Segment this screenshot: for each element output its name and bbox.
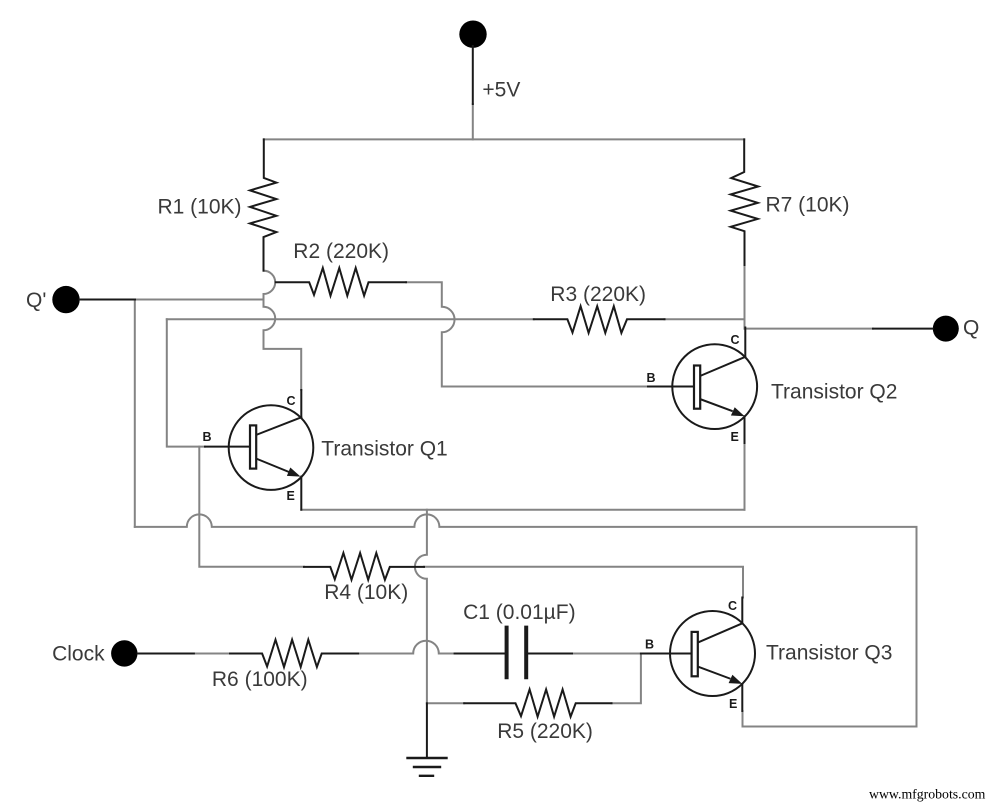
wire R1 bottom hops to Q1 collector: [264, 271, 302, 390]
capacitor C1: [455, 653, 572, 655]
transistor Q2: [648, 328, 757, 444]
wire Q' to R1 node: [135, 299, 264, 301]
wire R4 left branch: [199, 447, 304, 567]
resistor R6: [230, 640, 358, 667]
wire ground vertical with hop: [415, 510, 427, 704]
svg-text:E: E: [287, 489, 295, 503]
wire long bottom run with hops: [135, 514, 917, 726]
wire Q3 emitter gray to loop: [742, 711, 744, 727]
svg-text:Transistor Q2: Transistor Q2: [771, 381, 897, 404]
resistor R5: [464, 689, 611, 716]
wire R4 right to Q3 collector: [424, 567, 743, 598]
wire Q' lead: [80, 299, 136, 301]
svg-text:R4 (10K): R4 (10K): [324, 581, 408, 604]
wire top supply rail: [264, 138, 744, 140]
svg-text:Q': Q': [26, 289, 46, 312]
svg-text:R5 (220K): R5 (220K): [497, 720, 593, 743]
resistor R2: [276, 268, 406, 296]
svg-text:R6 (100K): R6 (100K): [212, 668, 308, 691]
wire clock gray segment 2 with hop: [358, 641, 455, 654]
wire Q1 base net corner down: [167, 319, 205, 446]
svg-text:Q: Q: [963, 316, 979, 339]
svg-text:R2 (220K): R2 (220K): [293, 240, 389, 263]
wire Q' branch down left: [134, 300, 136, 527]
svg-text:B: B: [645, 638, 654, 652]
svg-text:E: E: [731, 430, 739, 444]
svg-text:B: B: [647, 371, 656, 385]
wire emitter bus Q1-Q2: [301, 509, 744, 511]
node Clock terminal: [111, 640, 137, 666]
wire R2 right to Q2 base: [406, 282, 648, 386]
resistor R7: [731, 139, 759, 265]
svg-text:C1 (0.01µF): C1 (0.01µF): [463, 601, 575, 624]
svg-text:+5V: +5V: [482, 78, 520, 101]
svg-text:R1 (10K): R1 (10K): [158, 195, 242, 218]
svg-text:B: B: [203, 430, 212, 444]
svg-text:R7 (10K): R7 (10K): [766, 194, 850, 217]
wire Clock lead: [138, 653, 194, 655]
wire Q1 base net horizontal: [167, 318, 534, 320]
wire Q output gray: [745, 328, 874, 330]
transistor Q3: [641, 598, 755, 712]
svg-text:C: C: [731, 333, 740, 347]
svg-text:www.mfgrobots.com: www.mfgrobots.com: [869, 787, 986, 802]
svg-text:Clock: Clock: [52, 642, 105, 665]
svg-text:R3 (220K): R3 (220K): [550, 283, 646, 306]
wire clock gray segment 1: [194, 653, 230, 655]
wire +5V stub lower (gray): [472, 104, 474, 139]
svg-text:E: E: [729, 697, 737, 711]
svg-text:C: C: [728, 599, 737, 613]
node +5V terminal: [459, 21, 486, 48]
wire Q2 emitter lower gray: [744, 443, 746, 510]
wire C1 right gray: [572, 653, 641, 655]
wire R7 bottom node: [744, 265, 746, 329]
resistor R3: [534, 306, 665, 333]
resistor R1: [250, 139, 276, 270]
ground: [426, 703, 428, 757]
node Q terminal: [933, 316, 959, 342]
resistor R4: [304, 553, 424, 580]
wire R3 right to R7 node: [665, 318, 745, 320]
svg-text:Transistor Q3: Transistor Q3: [766, 641, 892, 664]
svg-text:Transistor Q1: Transistor Q1: [321, 438, 447, 461]
node Q' terminal: [52, 286, 79, 313]
wire R5 left gray: [427, 702, 464, 704]
svg-text:C: C: [287, 394, 296, 408]
wire R5 right up to Q3 base node: [612, 654, 641, 704]
transistor Q1: [205, 390, 313, 510]
wire Q lead: [873, 328, 933, 330]
wire +5V lead: [472, 46, 474, 104]
